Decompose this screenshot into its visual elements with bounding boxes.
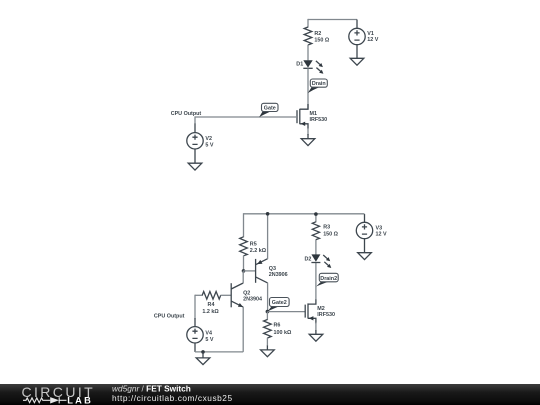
LED D2 [305, 254, 332, 268]
svg-text:IRF530: IRF530 [317, 312, 335, 318]
wire R4 left to V4 [194, 295, 196, 319]
voltage source V3 12V [356, 214, 387, 253]
transistor Q3 2N3906 [256, 259, 288, 283]
wire D1 cathode to M1 drain [307, 68, 309, 109]
footer bar [0, 384, 540, 405]
svg-text:LAB: LAB [67, 395, 93, 405]
node Gate flag label [259, 103, 278, 117]
wire M2 drain up to D2 cathode [315, 262, 317, 299]
node Gate2 flag label [267, 298, 289, 312]
svg-text:R2: R2 [314, 31, 321, 37]
node Drain2 flag label [316, 273, 338, 286]
MOSFET M1 IRF530 [297, 104, 327, 129]
transistor Q2 2N3904 [231, 283, 262, 307]
svg-text:12 V: 12 V [367, 37, 378, 43]
svg-text:Gate: Gate [264, 105, 276, 111]
wire Q3 collector down [267, 283, 269, 312]
MOSFET M2 IRF530 [305, 299, 335, 324]
ground below M1 [301, 134, 315, 146]
svg-text:V4: V4 [205, 331, 212, 337]
svg-text:IRF530: IRF530 [310, 117, 328, 123]
svg-text:D2: D2 [305, 256, 312, 262]
wire top rail R2 to V1 [308, 19, 357, 21]
svg-text:5 V: 5 V [205, 337, 213, 343]
node junction rail/R3 [314, 212, 318, 216]
wire gate2 junction to M2 [267, 311, 305, 313]
wire bottom V4 to Q2 emitter [195, 351, 243, 353]
node junction rail/Q3 emitter [266, 212, 270, 216]
svg-text:V2: V2 [205, 136, 212, 142]
node junction gate2 [266, 310, 270, 314]
svg-text:150 Ω: 150 Ω [323, 232, 338, 238]
svg-text:D1: D1 [296, 62, 303, 68]
voltage source V2 5V [187, 116, 214, 163]
node junction R5/Q3 base/Q2 collector [242, 269, 246, 273]
wire Q2 emitter down [242, 307, 244, 352]
wire R6 bottom to ground [266, 338, 268, 346]
resistor R2 [304, 27, 330, 45]
svg-text:2N3906: 2N3906 [269, 272, 288, 278]
resistor R3 [312, 222, 338, 240]
svg-text:Drain2: Drain2 [320, 276, 337, 282]
voltage source V4 5V [187, 318, 214, 352]
wire M2 source to ground [315, 323, 317, 331]
ground below V2 [188, 163, 202, 170]
wire R4 left lead [195, 294, 203, 296]
wire D2 anode to R3 bottom [315, 239, 317, 254]
wire R4 right to Q2 base [221, 294, 232, 296]
svg-text:R4: R4 [208, 302, 215, 308]
svg-text:1.2 kΩ: 1.2 kΩ [202, 309, 219, 315]
ground below R6 [261, 346, 275, 357]
svg-text:2.2 kΩ: 2.2 kΩ [250, 248, 267, 254]
svg-text:2N3904: 2N3904 [243, 297, 262, 303]
resistor R6 [264, 320, 292, 339]
LED D1 [296, 60, 323, 74]
wire M1 source to ground [307, 128, 309, 135]
svg-text:12 V: 12 V [376, 231, 387, 237]
svg-text:M2: M2 [317, 306, 325, 312]
svg-text:R3: R3 [323, 225, 330, 231]
wire Q3 emitter to rail [267, 214, 269, 259]
wire junction to R6 [266, 312, 268, 320]
wire R2 bottom to D1 anode [307, 45, 309, 61]
node junction ground tap [201, 350, 205, 354]
wire R5 bottom to junction [243, 256, 245, 271]
svg-text:5 V: 5 V [205, 143, 213, 149]
ground below V3 [358, 253, 372, 260]
svg-text:CPU Output: CPU Output [154, 313, 185, 319]
svg-text:R6: R6 [274, 322, 281, 328]
wire junction to Q3 base [244, 270, 256, 272]
voltage source V1 12V [349, 20, 379, 59]
wire R3 top to rail [315, 214, 317, 223]
svg-text:V3: V3 [376, 225, 383, 231]
svg-text:150 Ω: 150 Ω [314, 37, 329, 43]
ground below V4 [196, 352, 210, 365]
wire rail corner down to R2 [307, 19, 309, 28]
svg-text:100 kΩ: 100 kΩ [274, 330, 292, 336]
wire gate M1 to V2 [195, 116, 297, 118]
wire Q2 collector to junction [242, 271, 244, 283]
ground below V1 [350, 58, 364, 65]
resistor R4 [202, 292, 221, 315]
wire rail to R5 [243, 213, 245, 237]
resistor R5 [240, 237, 267, 256]
svg-text:V1: V1 [367, 31, 374, 37]
svg-text:Drain: Drain [312, 81, 326, 87]
CircuitLab logo resistor-diode glyph [23, 397, 67, 403]
wire bottom rail [244, 213, 365, 215]
svg-text:Gate2: Gate2 [272, 300, 287, 306]
svg-text:CPU Output: CPU Output [171, 111, 202, 117]
node Drain flag label [308, 79, 328, 93]
ground below M2 [309, 330, 323, 341]
svg-text:R5: R5 [250, 241, 257, 247]
svg-text:http://circuitlab.com/cxusb25: http://circuitlab.com/cxusb25 [112, 393, 233, 403]
